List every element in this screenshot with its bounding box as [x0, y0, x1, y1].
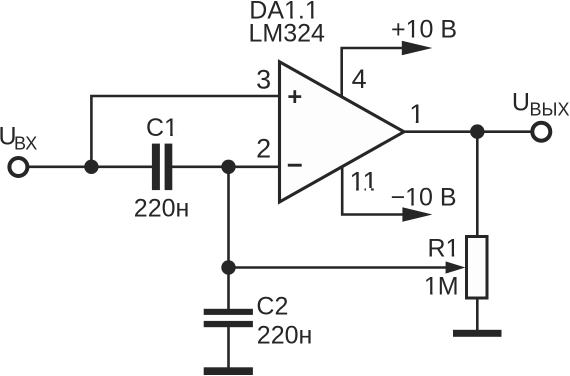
svg-text:U: U [512, 88, 530, 116]
svg-text:11: 11 [350, 167, 378, 197]
svg-text:LM324: LM324 [249, 20, 326, 48]
wire output junction down to R1 [476, 132, 479, 236]
wire C2 bottom plate to ground [227, 327, 230, 369]
wire pin 11 to -10V arrow [342, 167, 404, 215]
wire C1 to pin 2 [172, 166, 278, 169]
svg-text:ВХ: ВХ [14, 134, 37, 154]
wire C2 junction to R1 wiper arrow [229, 266, 449, 269]
svg-text:1: 1 [409, 99, 424, 129]
junction input node [84, 160, 98, 174]
svg-text:C2: C2 [256, 293, 288, 321]
junction C2-R1 node [221, 260, 235, 274]
input terminal circle [9, 158, 27, 176]
wire pin 4 to +10V arrow [342, 48, 404, 97]
svg-text:220н: 220н [257, 322, 313, 350]
capacitor C2 plates [204, 309, 253, 327]
op-amp inverting - marker [288, 164, 302, 167]
svg-text:1M: 1M [424, 273, 459, 301]
svg-text:C1: C1 [146, 114, 178, 142]
op-amp DA1.1 triangle [280, 62, 405, 202]
svg-text:−10 В: −10 В [391, 184, 457, 212]
ground symbol under C2 [204, 367, 253, 375]
ground symbol under R1 [453, 330, 502, 337]
svg-text:R1: R1 [428, 235, 460, 263]
wire input junction up to noninverting row [91, 96, 278, 167]
svg-text:2: 2 [256, 134, 271, 164]
capacitor C1 plates [152, 144, 172, 191]
svg-text:+10 В: +10 В [391, 15, 457, 43]
svg-text:4: 4 [352, 64, 367, 94]
op-amp noninverting + marker [288, 90, 301, 103]
svg-text:ВЫХ: ВЫХ [530, 99, 570, 119]
serif masks: flatten Liberation "1" feet to match Arial-style digits [165, 16, 458, 296]
wire output pin 1 to output terminal [405, 130, 531, 133]
wire C2 junction down to C2 top plate [227, 268, 230, 311]
wire input terminal to C1 [27, 166, 153, 169]
svg-text:3: 3 [256, 65, 271, 95]
svg-text:220н: 220н [134, 195, 190, 223]
resistor R1 body [467, 237, 488, 299]
junction output node [470, 124, 484, 138]
wire R1 bottom to ground [476, 299, 479, 332]
R1 wiper arrowhead [446, 261, 466, 273]
+10V supply arrowhead [402, 41, 433, 56]
junction C1-C2 node [221, 160, 235, 174]
-10V supply arrowhead [402, 207, 432, 222]
output terminal circle [532, 123, 550, 141]
wire C1 junction down to C2 junction [227, 167, 230, 268]
